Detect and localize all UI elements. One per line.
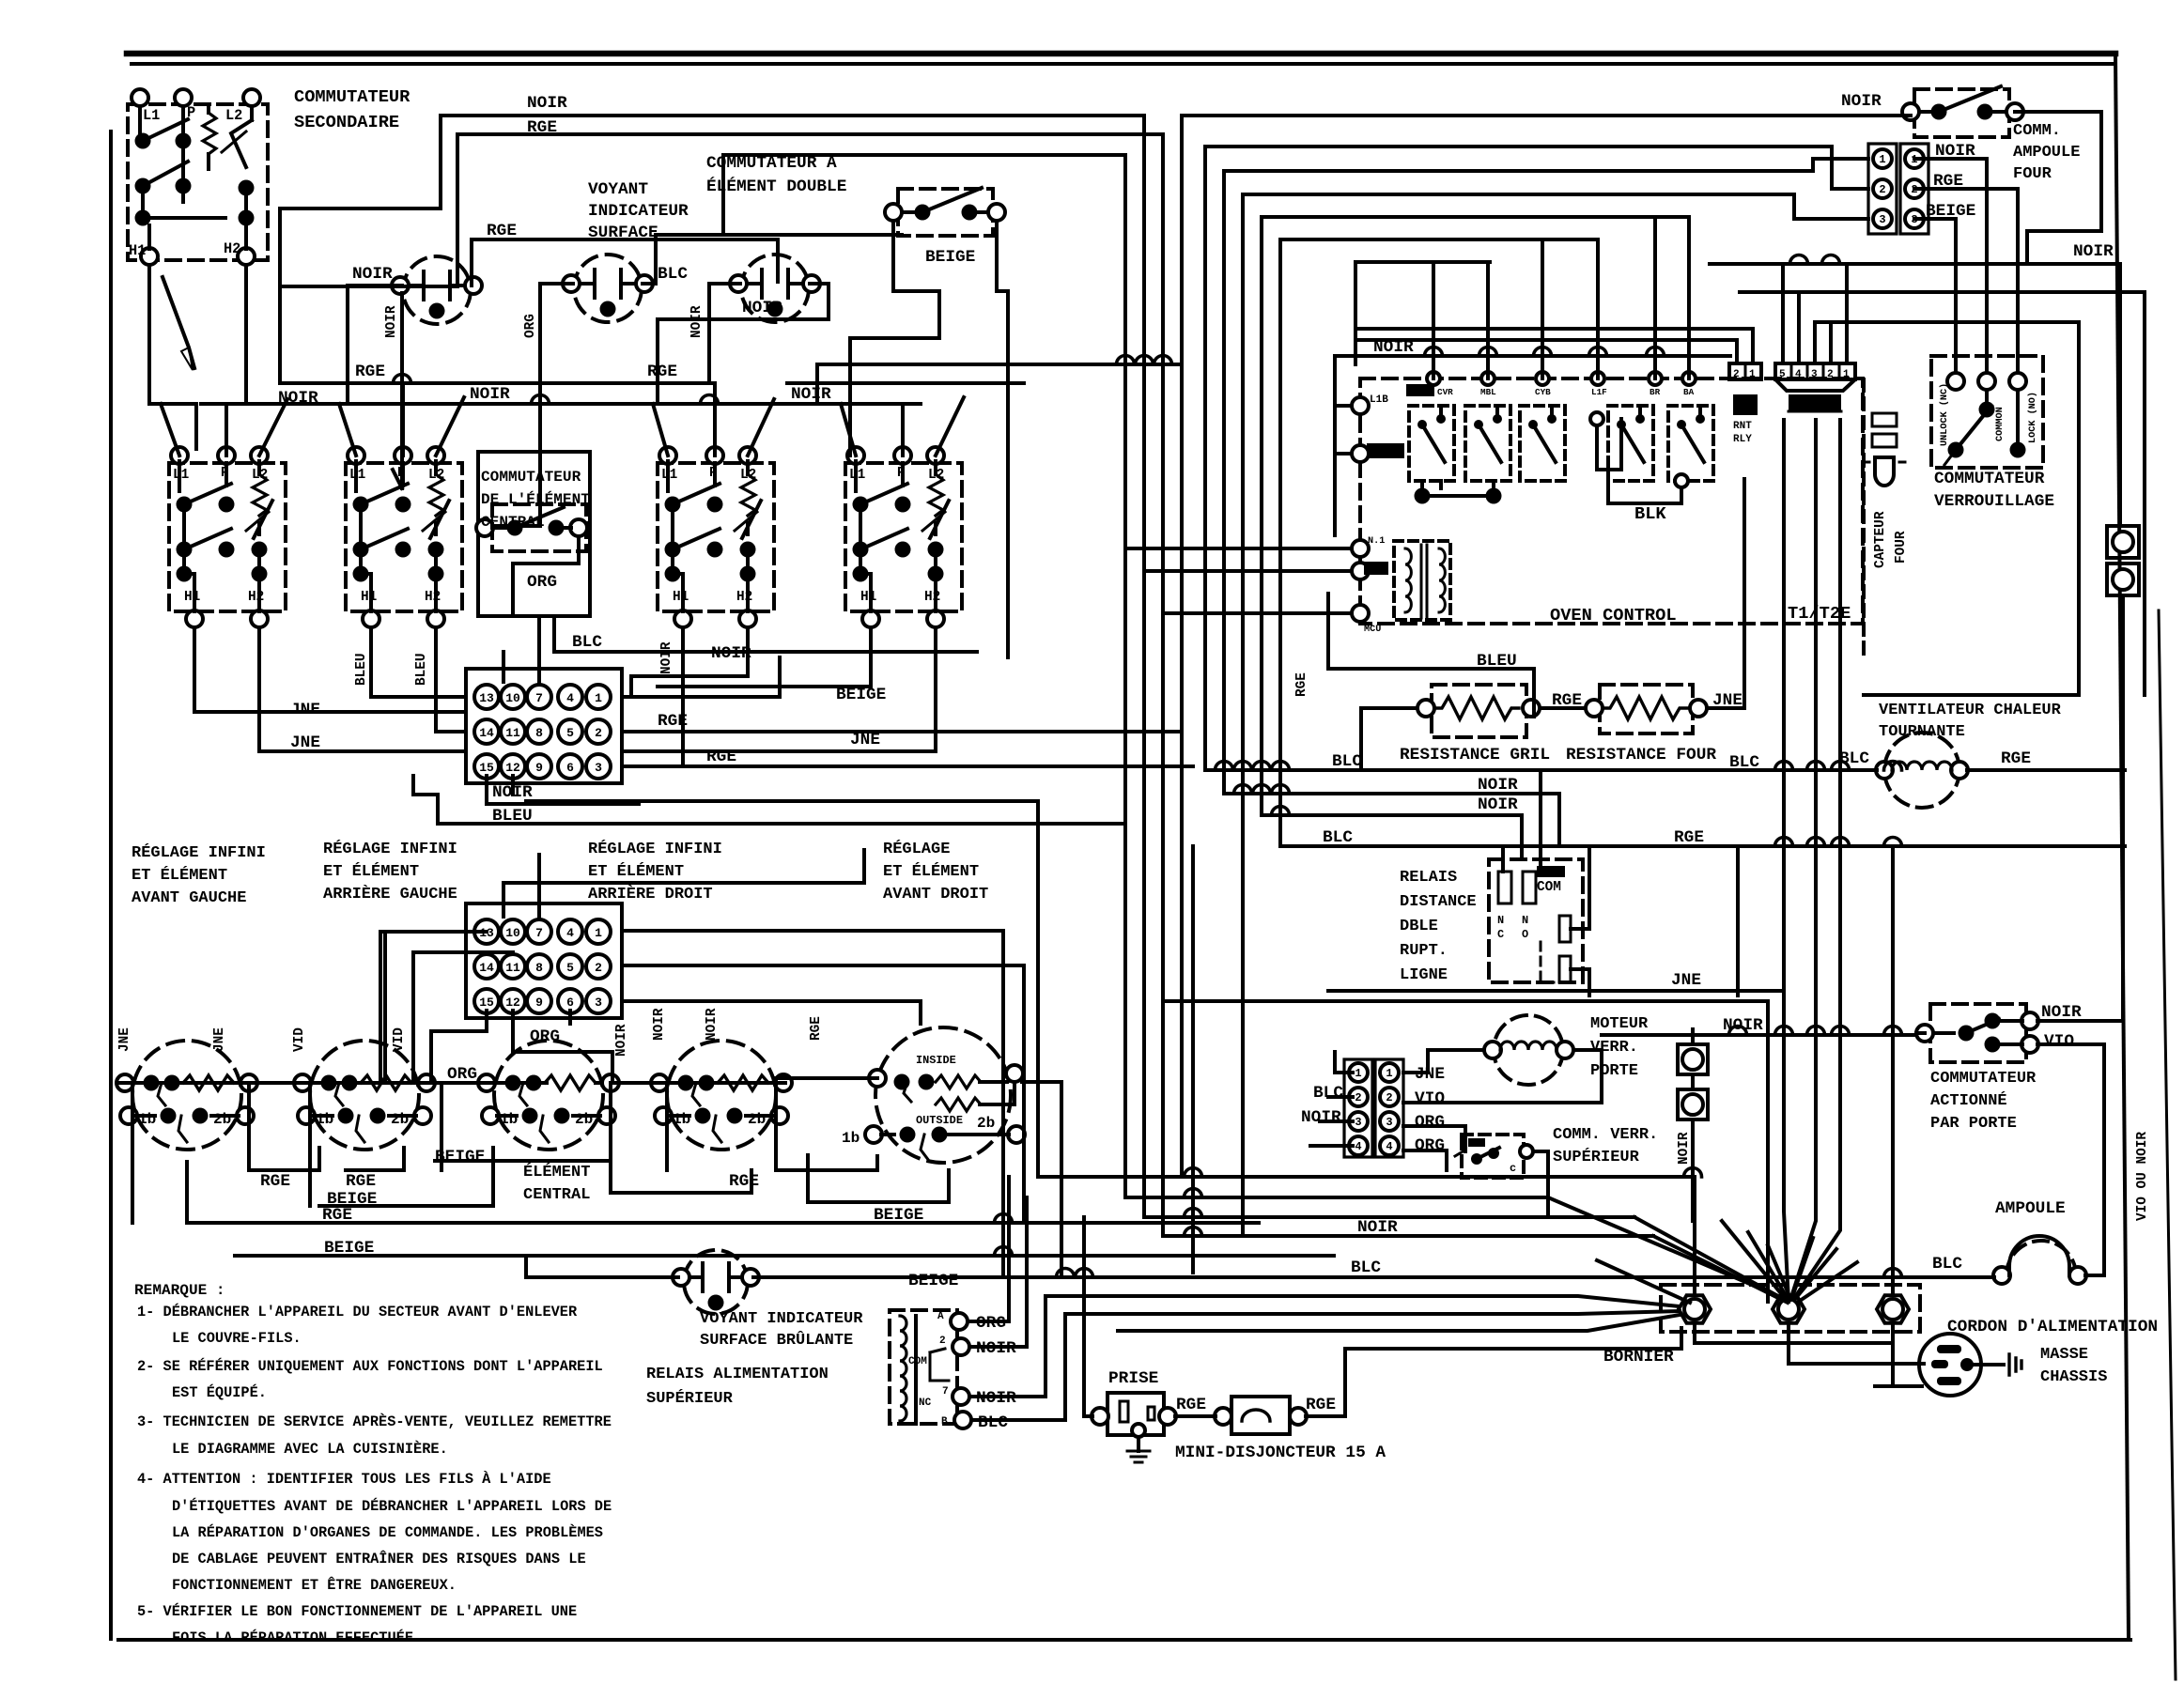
wire S2 drops BLEU <box>371 627 466 697</box>
connector P4 <box>1375 1059 1403 1157</box>
wire NOIR 388 bus left <box>817 363 1182 366</box>
svg-text:RGE: RGE <box>2001 749 2031 768</box>
verrouillage unlock terminal <box>1947 373 1964 390</box>
svg-text:SURFACE BRÛLANTE: SURFACE BRÛLANTE <box>700 1331 853 1350</box>
bornier terminal 2 <box>1773 1295 1805 1323</box>
svg-text:L1B: L1B <box>1370 394 1388 406</box>
svg-text:PRISE: PRISE <box>1108 1369 1158 1388</box>
svg-text:H2: H2 <box>248 590 264 605</box>
wire <box>257 523 261 534</box>
svg-text:RELAIS: RELAIS <box>1400 869 1457 887</box>
wire <box>178 461 181 491</box>
oven control relay K2 <box>1465 406 1510 481</box>
voyant surface brulante <box>684 1250 748 1314</box>
wire <box>369 574 373 611</box>
commutateur verrouillage <box>1931 356 2043 468</box>
SW0 res stem <box>207 106 210 113</box>
wire vertical to bornier T3 <box>1891 846 1895 1293</box>
terminal block TB2 pin 7 <box>527 919 551 944</box>
svg-text:12: 12 <box>505 761 520 775</box>
element E3 central terminal R <box>602 1074 619 1091</box>
terminal block TB1 pin 6 <box>558 754 582 779</box>
bornier terminal 1 <box>1679 1295 1711 1323</box>
wire BLEU oven <box>1328 669 1534 717</box>
wire actionne VIO exit <box>2037 1044 2104 1275</box>
actionne blade <box>1966 1019 1999 1033</box>
relais alim pin 4 <box>954 1412 971 1428</box>
switch S1 avant gauche thermostat arm <box>254 501 272 538</box>
svg-text:H1: H1 <box>860 590 877 605</box>
wire long verticals to fan <box>1784 420 1789 1302</box>
terminal block TB1 pin 12 <box>501 754 525 779</box>
svg-text:1: 1 <box>1386 1067 1392 1080</box>
wire <box>244 188 248 218</box>
voyant indicateur V1 left terminal <box>392 277 409 294</box>
terminal SW0 L1 <box>132 89 148 106</box>
svg-text:CENTRAL: CENTRAL <box>523 1186 590 1204</box>
oven control terminal L1B <box>1352 397 1369 414</box>
element E2 arriere gauche lower contacts <box>298 1107 315 1124</box>
element E1 avant gauche resistor <box>183 1075 234 1090</box>
svg-text:5: 5 <box>566 961 574 975</box>
res four terminal R <box>1690 700 1707 717</box>
svg-text:LE COUVRE-FILS.: LE COUVRE-FILS. <box>172 1330 302 1347</box>
svg-text:4: 4 <box>1386 1140 1392 1153</box>
svg-text:MASSE: MASSE <box>2040 1346 2088 1364</box>
commutateur secondaire SW0 <box>128 104 268 260</box>
relais alim pin NC <box>953 1388 969 1405</box>
wire conn P4 leads <box>1403 1126 1465 1151</box>
comm ampoule right terminal <box>2006 103 2023 120</box>
svg-text:L1: L1 <box>143 107 160 124</box>
svg-text:3- TECHNICIEN DE SERVICE APRÈS: 3- TECHNICIEN DE SERVICE APRÈS-VENTE, VE… <box>137 1413 612 1430</box>
svg-text:FOUR: FOUR <box>1894 531 1909 564</box>
svg-text:BLC: BLC <box>978 1413 1008 1432</box>
svg-text:AVANT GAUCHE: AVANT GAUCHE <box>132 889 246 907</box>
switch S1 avant gauche terminal L1 <box>171 447 188 464</box>
svg-text:BA: BA <box>1683 387 1695 397</box>
oven control terminal BLB <box>1352 445 1369 462</box>
svg-text:RÉGLAGE: RÉGLAGE <box>883 840 950 858</box>
SW5 right terminal <box>988 204 1005 221</box>
oven control top pin <box>1682 372 1696 385</box>
svg-text:BEIGE: BEIGE <box>874 1206 923 1225</box>
svg-text:NOIR: NOIR <box>659 641 674 674</box>
voyant indicateur V2 right terminal <box>636 275 653 292</box>
switch S3 arriere droit <box>658 463 774 611</box>
terminal block TB1 pin 8 <box>527 719 551 744</box>
wire into plug <box>1826 1362 1924 1366</box>
svg-text:DE L'ÉLÉMENT: DE L'ÉLÉMENT <box>481 490 590 508</box>
wire SW5 left drop <box>850 221 939 455</box>
element E1 avant gauche <box>132 1041 241 1150</box>
svg-text:H2: H2 <box>224 240 240 257</box>
leader arrow <box>163 277 194 368</box>
terminal block TB1 pin 13 <box>474 685 499 709</box>
svg-text:BLEU: BLEU <box>414 653 429 686</box>
terminal block TB2 pin 2 <box>586 954 611 979</box>
wire NOIR y868 <box>1262 815 1522 859</box>
svg-text:RESISTANCE GRIL: RESISTANCE GRIL <box>1400 746 1550 764</box>
wire voyant brulante right BEIGE-BLC bus <box>753 1275 1994 1279</box>
svg-text:VERR.: VERR. <box>1590 1039 1638 1057</box>
wire <box>934 574 937 611</box>
svg-text:10: 10 <box>505 691 520 705</box>
svg-text:NOIR: NOIR <box>352 265 393 284</box>
comm ampoule left terminal <box>1902 103 1919 120</box>
svg-text:ÉLÉMENT DOUBLE: ÉLÉMENT DOUBLE <box>706 176 846 196</box>
svg-text:SUPÉRIEUR: SUPÉRIEUR <box>1553 1148 1640 1166</box>
wire right bus3 y343 <box>1815 322 2079 695</box>
svg-text:NOIR: NOIR <box>791 385 831 404</box>
border frame bottom edge <box>118 1638 2130 1642</box>
wire RGE 1302 <box>188 1221 1259 1225</box>
bornier terminal 3 <box>1877 1295 1909 1323</box>
svg-text:ET ÉLÉMENT: ET ÉLÉMENT <box>323 862 419 881</box>
wire connector 5pin feeds <box>1781 264 1785 363</box>
svg-text:COMM. VERR.: COMM. VERR. <box>1553 1126 1658 1144</box>
wire res gril left RGE <box>1361 708 1417 770</box>
voyant indicateur V3 <box>741 255 809 322</box>
svg-text:COMM.: COMM. <box>2013 122 2061 140</box>
svg-text:RÉGLAGE INFINI: RÉGLAGE INFINI <box>132 843 266 862</box>
svg-text:1b: 1b <box>138 1111 156 1128</box>
svg-text:H2: H2 <box>425 590 441 605</box>
wire bus y1296 <box>1144 1215 1634 1219</box>
svg-text:BEIGE: BEIGE <box>324 1239 374 1258</box>
wire comm ampoule right <box>2015 112 2101 264</box>
wire NOIR bus below TB1 <box>526 799 1038 803</box>
svg-text:RGE: RGE <box>487 222 517 240</box>
terminal SW0 L2 <box>243 89 260 106</box>
switch S1 avant gauche terminal H1 <box>186 610 203 627</box>
svg-text:15: 15 <box>479 996 494 1010</box>
terminal block TB2 pin 14 <box>474 954 499 979</box>
resistance four <box>1600 685 1693 733</box>
switch S4 avant droit terminal L1 <box>847 447 864 464</box>
prise (outlet) <box>1107 1393 1164 1435</box>
wire bus y1066 <box>1163 1001 1768 1302</box>
svg-text:COMMON: COMMON <box>1995 407 2006 441</box>
svg-text:ET ÉLÉMENT: ET ÉLÉMENT <box>588 862 684 881</box>
terminal block TB1 pin 3 <box>586 754 611 779</box>
border frame right edge <box>2115 54 2129 1640</box>
element E1 avant gauche terminal R <box>240 1074 257 1091</box>
voyant indicateur V3 left terminal <box>730 275 747 292</box>
relais alim coil <box>900 1316 906 1421</box>
actionne left terminal <box>1916 1025 1933 1042</box>
svg-text:CYB: CYB <box>1535 387 1551 397</box>
svg-text:8: 8 <box>535 961 543 975</box>
svg-text:MCU: MCU <box>1364 625 1381 635</box>
svg-text:5: 5 <box>566 726 574 740</box>
terminal central right <box>570 519 587 536</box>
svg-text:OVEN CONTROL: OVEN CONTROL <box>1550 605 1677 625</box>
svg-text:D'ÉTIQUETTES AVANT DE DÉBRANCH: D'ÉTIQUETTES AVANT DE DÉBRANCHER L'APPAR… <box>172 1498 612 1515</box>
oven control terminal NB <box>1352 563 1369 579</box>
svg-text:COM: COM <box>908 1356 927 1367</box>
svg-text:LA RÉPARATION D'ORGANES DE COM: LA RÉPARATION D'ORGANES DE COMMANDE. LES… <box>172 1524 603 1541</box>
svg-text:3: 3 <box>595 761 602 775</box>
svg-text:11: 11 <box>505 726 520 740</box>
svg-text:CENTRAL: CENTRAL <box>481 514 545 531</box>
svg-text:JNE: JNE <box>290 733 320 752</box>
wire moteur leads <box>1403 1050 1484 1073</box>
wire voyant V1 right RGE riser <box>472 239 778 286</box>
terminal block TB1 pin 2 <box>586 719 611 744</box>
svg-text:RGE: RGE <box>1176 1396 1206 1414</box>
svg-text:O: O <box>1522 928 1528 941</box>
wire BLC bus from central <box>554 620 977 652</box>
wire comm verr sup exit <box>1533 1151 1548 1217</box>
terminal block TB2 pin 15 <box>474 989 499 1013</box>
page edge artifact right <box>2159 610 2176 1679</box>
element E2 arriere gauche lead <box>311 1081 363 1085</box>
wire TB2 feeds top <box>503 850 864 917</box>
svg-text:c: c <box>1510 1162 1516 1175</box>
svg-text:1b: 1b <box>673 1111 690 1128</box>
wire <box>359 512 363 574</box>
element E3 central resistor <box>545 1075 596 1090</box>
svg-text:CHASSIS: CHASSIS <box>2040 1368 2107 1386</box>
svg-text:1b: 1b <box>842 1130 860 1147</box>
svg-text:4: 4 <box>566 691 574 705</box>
element E2 arriere gauche <box>310 1041 419 1150</box>
svg-text:LIGNE: LIGNE <box>1400 966 1448 984</box>
svg-text:VOYANT: VOYANT <box>588 180 648 199</box>
E5 inside resistor <box>936 1075 981 1089</box>
wire BLC bus y820 <box>1205 768 1877 772</box>
svg-text:ÉLÉMENT: ÉLÉMENT <box>523 1163 590 1181</box>
svg-text:UNLOCK (NC): UNLOCK (NC) <box>1939 383 1950 446</box>
svg-text:NOIR: NOIR <box>492 783 533 802</box>
wire <box>671 512 674 574</box>
element E4 arriere droit <box>667 1041 776 1150</box>
terminal block TB2 pin 12 <box>501 989 525 1013</box>
relais distance dble rupt ligne <box>1489 859 1583 982</box>
wire bus y1253 <box>1038 1177 1695 1293</box>
wire fan into bornier1 <box>1046 1296 1680 1306</box>
svg-text:4: 4 <box>566 926 574 940</box>
wire noir right bus y281 <box>1710 264 2120 526</box>
wire <box>401 463 405 486</box>
wire staircase right lines <box>1182 114 1911 117</box>
svg-text:2: 2 <box>1733 369 1740 380</box>
svg-text:MINI-DISJONCTEUR 15 A: MINI-DISJONCTEUR 15 A <box>1175 1444 1386 1462</box>
svg-text:VIO: VIO <box>2044 1032 2074 1051</box>
wire <box>746 549 750 574</box>
switch S3 arriere droit terminal L2 <box>739 447 756 464</box>
element E3 central lead <box>495 1081 547 1085</box>
svg-text:7: 7 <box>535 691 543 705</box>
central blade <box>515 507 564 528</box>
wire <box>193 574 196 611</box>
svg-text:CORDON D'ALIMENTATION: CORDON D'ALIMENTATION <box>1947 1318 2158 1336</box>
E5 outside resistor <box>936 1098 981 1111</box>
element E4 arriere droit resistor <box>718 1075 768 1090</box>
svg-text:JNE: JNE <box>117 1027 132 1052</box>
masse chassis ground <box>1974 1363 2004 1366</box>
SW0 arm <box>231 120 252 167</box>
element E1 avant gauche terminal L <box>116 1074 133 1091</box>
oven control relay link 1 <box>1422 481 1494 496</box>
svg-text:3: 3 <box>595 996 602 1010</box>
wire oven NOIR bus y379 <box>1335 354 1730 358</box>
svg-text:DBLE: DBLE <box>1400 918 1438 935</box>
wire right bus2 y311 <box>1740 292 2145 695</box>
wire NOIR top bus <box>280 116 1144 246</box>
wire TB2 connections to elements <box>132 1083 249 1155</box>
svg-text:2b: 2b <box>977 1115 995 1132</box>
wire RGE mid bus <box>817 730 1182 733</box>
svg-text:2: 2 <box>1827 369 1834 380</box>
wire conn P3 leads <box>1335 1052 1353 1073</box>
svg-text:H1: H1 <box>361 590 378 605</box>
terminal block TB1 pin 7 <box>527 685 551 709</box>
svg-text:ORG: ORG <box>523 314 538 338</box>
comm verr superieur <box>1462 1135 1524 1178</box>
svg-text:1- DÉBRANCHER L'APPAREIL DU SE: 1- DÉBRANCHER L'APPAREIL DU SECTEUR AVAN… <box>137 1304 578 1320</box>
wire ORG from central switch <box>513 536 579 616</box>
svg-text:4- ATTENTION : IDENTIFIER TOUS: 4- ATTENTION : IDENTIFIER TOUS LES FILS … <box>137 1471 551 1488</box>
svg-text:14: 14 <box>479 961 494 975</box>
svg-text:N: N <box>1522 914 1528 927</box>
oven control dashed box <box>1360 378 1863 624</box>
wire <box>434 574 438 611</box>
terminal block TB1 pin 15 <box>474 754 499 779</box>
svg-text:N: N <box>1497 914 1504 927</box>
commutateur element central inner switch <box>492 504 586 551</box>
moteur terminal L <box>1484 1042 1501 1058</box>
wire <box>207 154 210 169</box>
comm ampoule four switch <box>1914 89 2009 137</box>
svg-text:2: 2 <box>1386 1091 1392 1104</box>
wire <box>250 106 254 120</box>
wire RGE bus elements <box>249 1148 319 1170</box>
wire NOIR mid bus2 <box>850 764 1193 768</box>
svg-text:1b: 1b <box>500 1111 518 1128</box>
wire <box>713 463 717 486</box>
wire BEIGE 1221 <box>435 1148 611 1161</box>
E5 terminal L <box>869 1070 886 1087</box>
wire <box>434 549 438 574</box>
svg-text:H2: H2 <box>736 590 752 605</box>
wire voyant V3 left <box>709 284 740 383</box>
wire res four right JNE <box>1707 479 1744 708</box>
wire voyant V1 left NOIR <box>348 286 402 404</box>
svg-text:13: 13 <box>479 691 494 705</box>
wire pin2 right to verrouillage lock <box>1914 189 2018 373</box>
terminal block TB2 <box>466 903 622 1018</box>
wire voyant brulante left <box>526 1256 678 1277</box>
button B2 <box>2107 564 2139 595</box>
svg-text:L2: L2 <box>225 107 242 124</box>
relais alim core1 <box>914 1316 918 1424</box>
verrouillage lock terminal <box>2009 373 2026 390</box>
E5 terminal R <box>1006 1065 1023 1082</box>
svg-text:RGE: RGE <box>346 1172 376 1191</box>
button B3 <box>1678 1044 1708 1074</box>
commutateur element central outer <box>478 452 590 616</box>
border frame left edge <box>109 131 113 1639</box>
element E2 arriere gauche terminal R <box>418 1074 435 1091</box>
svg-text:H2: H2 <box>924 590 940 605</box>
connector P2 <box>1900 144 1928 234</box>
voyant indicateur V2 left terminal <box>563 275 580 292</box>
switch S2 arriere gauche terminal L1 <box>348 447 364 464</box>
svg-text:NOIR: NOIR <box>2073 242 2114 261</box>
svg-text:7: 7 <box>942 1386 949 1397</box>
svg-text:7: 7 <box>535 926 543 940</box>
wire NOIR y845 <box>1224 794 1559 845</box>
svg-text:VID: VID <box>292 1027 307 1052</box>
svg-text:COMMUTATEUR: COMMUTATEUR <box>1930 1070 2037 1088</box>
svg-text:BLC: BLC <box>572 633 602 652</box>
svg-text:P: P <box>187 104 195 121</box>
svg-text:2: 2 <box>1879 183 1885 196</box>
wire <box>354 461 358 491</box>
wire <box>854 461 858 491</box>
svg-text:2b: 2b <box>748 1111 766 1128</box>
wire SW5 right drop BEIGE <box>997 221 1008 657</box>
svg-text:1: 1 <box>595 691 602 705</box>
wire <box>257 574 261 611</box>
switch S4 avant droit thermostat arm <box>930 501 949 538</box>
wire <box>934 461 937 474</box>
svg-text:INSIDE: INSIDE <box>916 1054 956 1067</box>
oven control terminal NCU <box>1352 605 1369 622</box>
svg-text:RGE: RGE <box>1294 672 1309 697</box>
switch S3 arriere droit terminal L1 <box>659 447 676 464</box>
svg-text:FOIS LA RÉPARATION EFFECTUÉE.: FOIS LA RÉPARATION EFFECTUÉE. <box>172 1629 422 1646</box>
svg-text:VOYANT INDICATEUR: VOYANT INDICATEUR <box>700 1310 863 1328</box>
svg-text:1: 1 <box>1843 369 1850 380</box>
wire prise leads <box>1084 1217 1092 1416</box>
wire NCU feed <box>1163 611 1352 615</box>
fuse right terminal <box>1290 1408 1307 1425</box>
wire <box>434 461 438 474</box>
switch S2 arriere gauche terminal H2 <box>427 610 444 627</box>
terminal SW0 H2 <box>238 248 255 265</box>
wire element drops <box>117 1081 125 1085</box>
element E2 arriere gauche terminal L <box>294 1074 311 1091</box>
terminal block TB2 pin 6 <box>558 989 582 1013</box>
voyant indicateur V1 right terminal <box>465 277 482 294</box>
wire voyant V2 drop ORG <box>492 308 540 526</box>
svg-text:LE DIAGRAMME AVEC LA CUISINIÈR: LE DIAGRAMME AVEC LA CUISINIÈRE. <box>172 1441 448 1458</box>
wire <box>257 461 261 474</box>
wire <box>257 549 261 574</box>
svg-text:BEIGE: BEIGE <box>908 1272 958 1290</box>
oven control top pin <box>1481 372 1495 385</box>
svg-text:SECONDAIRE: SECONDAIRE <box>294 112 399 132</box>
wire <box>182 512 186 574</box>
svg-text:RÉGLAGE INFINI: RÉGLAGE INFINI <box>588 840 722 858</box>
oven control terminal N1 <box>1352 540 1369 557</box>
switch S3 arriere droit thermostat arm <box>742 501 761 538</box>
verrouillage stem <box>1985 390 1989 402</box>
wire S1 drops <box>194 627 466 712</box>
svg-text:NOIR: NOIR <box>1841 92 1882 111</box>
svg-text:VIO: VIO <box>1415 1089 1445 1108</box>
connector P1 <box>1868 144 1897 234</box>
terminal block TB2 pin 8 <box>527 954 551 979</box>
switch S1 avant gauche terminal L2 <box>251 447 268 464</box>
svg-text:OUTSIDE: OUTSIDE <box>916 1114 963 1127</box>
svg-text:PAR PORTE: PAR PORTE <box>1930 1115 2017 1133</box>
wire BEIGE 1337 <box>235 1254 1334 1258</box>
terminal block TB2 pin 10 <box>501 919 525 944</box>
